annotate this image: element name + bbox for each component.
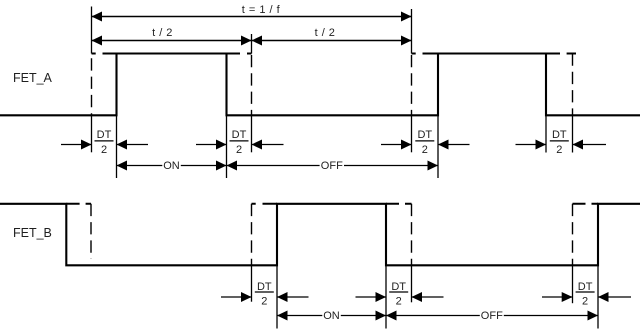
- wire extension line x=411.5 above waveform: [411, 9, 413, 54]
- wire ideal top connector A2 (dashed): [227, 53, 252, 55]
- svg-text:2: 2: [396, 296, 402, 308]
- dimension DT/2 arrows B3: [542, 296, 573, 298]
- wire extension line x=251.5 below B baseline: [251, 265, 253, 301]
- svg-text:t = 1 / f: t = 1 / f: [242, 4, 281, 16]
- wire ideal top connector B4 (dashed): [573, 203, 599, 205]
- svg-text:DT: DT: [257, 281, 272, 293]
- wire ideal top connector B3 (dashed): [386, 203, 412, 205]
- svg-text:DT: DT: [417, 129, 432, 141]
- wire edge extension x=226.5 below baseline: [226, 115, 228, 178]
- svg-text:2: 2: [582, 296, 588, 308]
- wire ideal top connector A3 (dashed): [412, 53, 439, 55]
- node DT/2 fraction label B1: [255, 281, 274, 308]
- node DT/2 fraction label A1: [95, 129, 114, 156]
- dimension DT/2 arrows A3: [381, 144, 412, 146]
- dimension DT/2 arrows B2: [356, 296, 387, 298]
- svg-text:DT: DT: [97, 129, 112, 141]
- node DT/2 fraction label B3: [576, 281, 595, 308]
- svg-text:ON: ON: [163, 160, 180, 172]
- svg-text:2: 2: [556, 144, 562, 156]
- dimension OFF line FET_A: [227, 165, 320, 167]
- svg-text:2: 2: [236, 144, 242, 156]
- wire extension line x=572.5 below baseline: [572, 115, 574, 152]
- node DT/2 fraction label A4: [550, 129, 569, 156]
- svg-text:DT: DT: [552, 129, 567, 141]
- dimension t/2 second half line: [252, 40, 412, 42]
- svg-text:ON: ON: [323, 310, 340, 322]
- dimension DT/2 arrows A1: [61, 144, 92, 146]
- node ideal switching line 2, FET_B row (dashed vertical): [251, 204, 253, 265]
- wire extension line x=572.5 below B baseline: [572, 265, 574, 303]
- svg-text:OFF: OFF: [481, 310, 503, 322]
- wire extension line x=251.5 above waveform: [251, 34, 253, 54]
- svg-text:DT: DT: [578, 281, 593, 293]
- wire edge extension x=598 below B baseline: [597, 265, 599, 328]
- wire extension line x=411.5 below B baseline: [411, 265, 413, 302]
- dimension DT/2 arrows A4: [516, 144, 547, 146]
- wire ideal top connector A1 (dashed): [92, 53, 117, 55]
- svg-text:2: 2: [422, 144, 428, 156]
- svg-text:2: 2: [261, 296, 267, 308]
- wire edge extension x=116.5 below baseline: [116, 115, 118, 178]
- dimension DT/2 arrows A2: [196, 144, 227, 146]
- svg-text:DT: DT: [391, 281, 406, 293]
- dimension ON line FET_B: [277, 315, 322, 317]
- node ideal switching line 1, FET_B row (dashed vertical): [90, 204, 92, 259]
- wire edge extension x=546 below baseline: [545, 115, 547, 152]
- svg-text:DT: DT: [232, 129, 247, 141]
- dimension OFF line FET_B: [386, 315, 480, 317]
- wire edge extension x=386 below B baseline: [385, 265, 387, 328]
- node ideal switching line 4, FET_B row (dashed vertical): [572, 204, 574, 265]
- wire ideal top connector B2 (dashed): [252, 203, 278, 205]
- dimension t/2 first half line: [92, 40, 252, 42]
- node ideal switching line 4, FET_A row (dashed vertical): [572, 54, 574, 116]
- wire edge extension x=438 below baseline: [437, 115, 439, 178]
- dimension DT/2 arrows B1: [221, 296, 252, 298]
- wire ideal top connector A4 (dashed): [546, 53, 576, 55]
- svg-text:OFF: OFF: [321, 160, 343, 172]
- dimension t = 1/f line: [92, 16, 412, 18]
- wire FET_A waveform: [0, 54, 640, 116]
- wire extension line x=411.5 below baseline: [411, 115, 413, 152]
- svg-text:t / 2: t / 2: [152, 27, 173, 39]
- svg-text:FET_A: FET_A: [13, 71, 53, 85]
- wire extension line x=91.5 above waveform: [91, 7, 93, 54]
- wire ideal top connector B1 (dashed): [66, 203, 91, 205]
- node ideal switching line 3, FET_B row (dashed vertical): [411, 204, 413, 265]
- node DT/2 fraction label B2: [389, 281, 408, 308]
- dimension ON line FET_A: [117, 165, 163, 167]
- wire extension line x=91.5 below baseline: [91, 115, 93, 152]
- svg-text:FET_B: FET_B: [13, 226, 52, 240]
- svg-text:2: 2: [101, 144, 107, 156]
- node ideal switching line 1, FET_A row (dashed vertical): [91, 58, 93, 115]
- svg-text:t / 2: t / 2: [315, 27, 336, 39]
- node DT/2 fraction label A3: [415, 129, 434, 156]
- node DT/2 fraction label A2: [230, 129, 249, 156]
- wire extension line x=251.5 below baseline: [251, 115, 253, 152]
- wire edge extension x=277 below B baseline: [276, 265, 278, 328]
- node ideal switching line 3, FET_A row (dashed vertical): [411, 55, 413, 115]
- node ideal switching line 2, FET_A row (dashed vertical): [251, 55, 253, 115]
- wire FET_B waveform: [0, 204, 640, 265]
